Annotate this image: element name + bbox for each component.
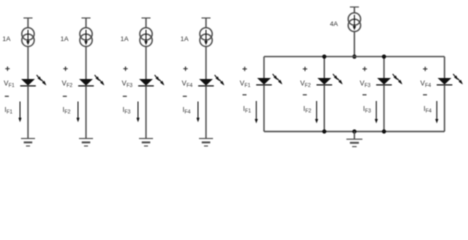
junction dot: branch 2 / bottom rail	[322, 129, 326, 133]
current arrow IF4 (parallel branch)	[435, 101, 438, 123]
current source I1 (1A)	[22, 28, 34, 47]
wire: LED D2 cathode to ground	[85, 86, 87, 139]
current arrow IF1	[18, 102, 21, 123]
wire: source I3 to LED D3 anode	[145, 46, 147, 79]
label + (anode polarity, parallel branch 3)	[363, 67, 367, 71]
current arrow IF3 (parallel branch)	[375, 101, 378, 123]
current arrow IF2	[76, 102, 79, 123]
terminal T3 (supply bar, branch 3)	[142, 17, 151, 19]
wire: terminal T1 to current source I1	[27, 18, 29, 28]
junction dot: branch 3 / bottom rail	[382, 129, 386, 133]
wire: terminal T5 to current source I5	[353, 7, 355, 13]
LED D8	[437, 74, 463, 85]
terminal T1 (supply bar, branch 1)	[24, 17, 33, 19]
current source I4 (1A)	[200, 28, 212, 47]
label - (cathode polarity, parallel branch 3)	[363, 94, 367, 96]
ground (branch 4)	[199, 139, 213, 147]
label + (anode polarity, branch 4)	[183, 67, 187, 71]
LED D1	[20, 75, 46, 86]
label - (cathode polarity, branch 4)	[183, 95, 187, 97]
svg-text:1A: 1A	[120, 36, 129, 43]
wire: LED D1 cathode to ground	[27, 86, 29, 139]
wire: top rail to LED D7 anode (branch 3)	[383, 57, 385, 79]
current arrow IF2 (parallel branch)	[315, 101, 318, 123]
junction dot: branch 2 / top rail	[322, 55, 326, 59]
LED D4	[198, 75, 224, 86]
LED D3	[138, 75, 164, 86]
wire: source I4 to LED D4 anode	[205, 46, 207, 79]
wire: source I5 to top rail	[353, 32, 355, 57]
label - (cathode polarity, branch 1)	[5, 95, 9, 97]
current source I5 (4A)	[348, 13, 360, 32]
wire: LED D5 cathode to bottom rail	[263, 85, 265, 132]
LED D7	[376, 74, 402, 85]
ground (branch 3)	[139, 139, 153, 147]
svg-text:1A: 1A	[60, 36, 69, 43]
label - (cathode polarity, parallel branch 2)	[303, 94, 307, 96]
wire: bottom rail to ground	[353, 132, 355, 140]
svg-text:1A: 1A	[180, 36, 189, 43]
wire: top rail to LED D5 anode (branch 1)	[263, 57, 265, 79]
svg-text:4A: 4A	[330, 21, 339, 28]
label + (anode polarity, parallel branch 2)	[303, 67, 307, 71]
current arrow IF3	[136, 102, 139, 123]
current arrow IF4	[196, 102, 199, 123]
wire: source I2 to LED D2 anode	[85, 46, 87, 79]
bottom rail wire (node B)	[264, 131, 445, 133]
current source I2 (1A)	[80, 28, 92, 47]
label - (cathode polarity, branch 2)	[63, 95, 67, 97]
LED D6	[317, 74, 343, 85]
terminal T2 (supply bar, branch 2)	[82, 17, 91, 19]
ground (branch 2)	[79, 139, 93, 147]
label + (anode polarity, branch 2)	[63, 67, 67, 71]
ground (common, right circuit)	[346, 139, 362, 146]
wire: LED D6 cathode to bottom rail	[323, 85, 325, 132]
LED D2	[78, 75, 104, 86]
current arrow IF1 (parallel branch)	[255, 101, 258, 123]
top rail wire (node A)	[264, 56, 445, 58]
terminal T4 (supply bar, branch 4)	[202, 17, 211, 19]
label + (anode polarity, parallel branch 1)	[243, 67, 247, 71]
wire: top rail to LED D6 anode (branch 2)	[323, 57, 325, 79]
wire: source I1 to LED D1 anode	[27, 46, 29, 79]
label + (anode polarity, branch 1)	[5, 67, 9, 71]
label - (cathode polarity, parallel branch 1)	[243, 94, 247, 96]
wire: terminal T3 to current source I3	[145, 18, 147, 28]
label + (anode polarity, parallel branch 4)	[423, 67, 427, 71]
wire: LED D3 cathode to ground	[145, 86, 147, 139]
terminal T5 (supply bar, 4A source)	[350, 6, 359, 8]
wire: LED D4 cathode to ground	[205, 86, 207, 139]
wire: terminal T4 to current source I4	[205, 18, 207, 28]
wire: LED D7 cathode to bottom rail	[383, 85, 385, 132]
svg-text:1A: 1A	[2, 36, 11, 43]
label + (anode polarity, branch 3)	[123, 67, 127, 71]
ground (branch 1)	[21, 139, 35, 147]
LED D5	[256, 74, 282, 85]
wire: terminal T2 to current source I2	[85, 18, 87, 28]
label - (cathode polarity, branch 3)	[123, 95, 127, 97]
junction dot: source I5 / top rail	[352, 55, 356, 59]
junction dot: branch 3 / top rail	[382, 55, 386, 59]
label - (cathode polarity, parallel branch 4)	[423, 94, 427, 96]
junction dot: ground / bottom rail	[352, 129, 356, 133]
wire: top rail to LED D8 anode (branch 4)	[444, 57, 446, 79]
current source I3 (1A)	[140, 28, 152, 47]
wire: LED D8 cathode to bottom rail	[444, 85, 446, 132]
